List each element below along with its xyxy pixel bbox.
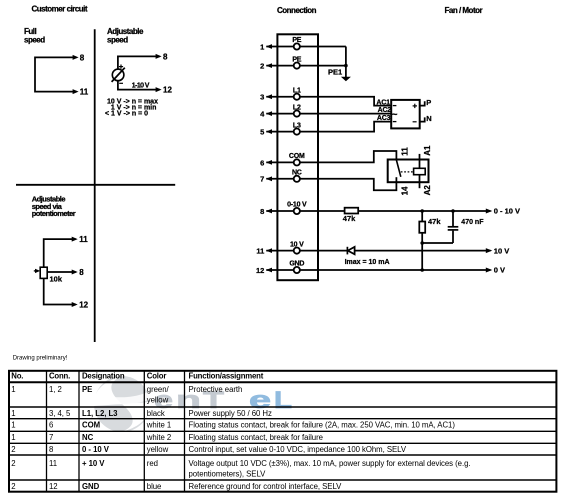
divider horizontal line — [16, 184, 175, 186]
svg-text:0 - 10 V: 0 - 10 V — [82, 445, 110, 454]
svg-text:white 1: white 1 — [146, 421, 171, 430]
svg-text:No.: No. — [11, 371, 23, 380]
svg-text:PE: PE — [292, 56, 301, 63]
svg-text:8: 8 — [80, 53, 85, 62]
wire terminal 1 PE — [266, 46, 346, 48]
svg-text:8: 8 — [260, 207, 264, 216]
table row L1 L2 L3 — [11, 409, 272, 418]
resistor 47k vertical — [419, 222, 425, 233]
arrow to 8 — [156, 54, 162, 59]
node junction 0-10V / 47k — [420, 209, 424, 213]
svg-text:2: 2 — [11, 445, 15, 454]
svg-text:AC3: AC3 — [377, 115, 391, 122]
wire divider vertical — [421, 211, 423, 270]
svg-text:yellow: yellow — [147, 445, 169, 454]
svg-text:Imax = 10 mA: Imax = 10 mA — [345, 259, 390, 266]
minus sign — [119, 82, 123, 84]
wire full-speed jumper 8-11 — [35, 57, 77, 91]
relay K1 contact box — [388, 160, 429, 183]
svg-text:P: P — [426, 98, 431, 107]
rectifier plus mark — [413, 104, 417, 108]
table row +10V — [11, 459, 470, 479]
svg-text:L1, L2, L3: L1, L2, L3 — [82, 409, 118, 418]
terminal 5 L3 — [260, 122, 301, 136]
svg-text:Power supply 50 / 60 Hz: Power supply 50 / 60 Hz — [189, 409, 273, 418]
svg-text:blue: blue — [147, 482, 162, 491]
label: Adjustable speed — [107, 27, 144, 44]
svg-text:12: 12 — [163, 86, 172, 95]
svg-text:6: 6 — [260, 158, 264, 167]
svg-text:2: 2 — [260, 62, 264, 71]
svg-text:1-10 V: 1-10 V — [132, 83, 150, 90]
svg-text:11: 11 — [400, 147, 409, 156]
svg-text:Reference ground for control i: Reference ground for control interface, … — [189, 482, 343, 491]
svg-text:NC: NC — [292, 170, 302, 177]
terminal 1 PE — [260, 37, 302, 51]
capacitor 470nF stub top — [452, 211, 454, 226]
terminal 6 COM — [260, 153, 305, 167]
arrow to 11 — [73, 89, 79, 94]
svg-text:NC: NC — [82, 433, 94, 442]
wire terminal 5 L3 — [266, 122, 391, 132]
svg-text:+ 10 V: + 10 V — [82, 459, 105, 468]
svg-text:Color: Color — [147, 371, 167, 380]
table row COM — [11, 421, 455, 430]
wire PE1 drop — [345, 47, 347, 78]
rectifier input marks — [393, 105, 397, 107]
wire P stub — [420, 101, 425, 105]
svg-text:N: N — [426, 114, 431, 123]
svg-text:Customer circuit: Customer circuit — [32, 5, 88, 14]
wire terminal 3 L1 — [266, 97, 391, 106]
svg-text:potentiometer: potentiometer — [32, 209, 76, 218]
svg-text:2: 2 — [11, 482, 15, 491]
svg-text:Floating status contact, break: Floating status contact, break for failu… — [189, 433, 323, 442]
node PE junction — [344, 64, 348, 68]
svg-text:12: 12 — [79, 300, 88, 309]
svg-text:white 2: white 2 — [146, 433, 171, 442]
source diagonal line — [112, 68, 125, 82]
wire pot to 11 — [44, 239, 76, 267]
svg-text:0 V: 0 V — [494, 266, 505, 275]
arrow to 8 — [72, 270, 78, 275]
svg-text:1: 1 — [11, 421, 15, 430]
svg-text:11: 11 — [49, 459, 57, 468]
wire source to 12 — [118, 81, 160, 90]
svg-text:green/: green/ — [147, 385, 170, 394]
node junction divider mid — [420, 241, 424, 245]
terminal 2 PE — [260, 56, 302, 70]
svg-text:1: 1 — [260, 42, 264, 51]
svg-text:47k: 47k — [428, 217, 441, 226]
table row NC — [11, 433, 323, 442]
terminal 12 GND — [256, 261, 304, 275]
svg-text:Fan / Motor: Fan / Motor — [445, 6, 483, 15]
label: Adjustable speed via potentiometer — [32, 195, 76, 219]
svg-text:GND: GND — [82, 482, 100, 491]
terminal 7 NC — [260, 170, 302, 184]
arrow out 0V — [486, 268, 493, 273]
label: Full speed — [24, 27, 45, 44]
svg-text:PE1: PE1 — [328, 67, 342, 76]
capacitor plates — [448, 226, 459, 228]
svg-text:47k: 47k — [343, 214, 356, 223]
svg-text:A2: A2 — [423, 185, 432, 196]
svg-text:0-10 V: 0-10 V — [287, 202, 307, 209]
svg-text:Connection: Connection — [277, 6, 317, 15]
capacitor stub bottom — [452, 231, 454, 243]
wire pot to 12 — [44, 278, 76, 304]
arrow to 8 — [73, 55, 79, 60]
svg-text:yellow: yellow — [147, 396, 169, 405]
terminal 4 L2 — [260, 104, 301, 118]
svg-text:8: 8 — [163, 52, 168, 61]
potentiometer R body 10k — [40, 267, 47, 278]
svg-text:6: 6 — [49, 421, 53, 430]
terminal block — [277, 34, 318, 280]
svg-text:~: ~ — [392, 110, 398, 121]
svg-text:Protective earth: Protective earth — [189, 385, 243, 394]
svg-text:10k: 10k — [50, 275, 63, 284]
plus sign — [119, 65, 123, 69]
wire terminal 2 PE — [266, 65, 346, 67]
rectifier module — [391, 100, 420, 128]
wire terminal 4 L2 — [266, 113, 391, 115]
svg-text:0 - 10 V: 0 - 10 V — [494, 207, 520, 216]
svg-text:L2: L2 — [293, 104, 301, 111]
ground PE1 symbol — [341, 77, 351, 82]
svg-text:AC2: AC2 — [378, 107, 392, 114]
svg-text:L1: L1 — [293, 87, 301, 94]
watermark swirl logo — [93, 375, 151, 433]
wire terminal 7 NC to relay pin 14 — [266, 177, 396, 190]
svg-text:Control input, set value 0-10: Control input, set value 0-10 VDC, imped… — [189, 445, 407, 454]
watermark letters el (blue) — [249, 387, 292, 414]
watermark letters enT (gray) — [154, 387, 224, 414]
svg-text:1: 1 — [11, 385, 15, 394]
rectifier minus mark — [413, 121, 417, 123]
svg-text:L: L — [274, 387, 292, 414]
svg-text:8: 8 — [79, 268, 84, 277]
svg-text:1: 1 — [11, 433, 15, 442]
table row PE — [11, 385, 242, 404]
svg-text:A1: A1 — [423, 145, 432, 156]
svg-text:COM: COM — [82, 421, 100, 430]
svg-text:12: 12 — [49, 482, 58, 491]
arrow out 10V — [486, 248, 493, 253]
svg-text:7: 7 — [49, 433, 53, 442]
wiper arrow — [34, 270, 36, 272]
wire terminal 6 COM to relay pin 11 — [266, 151, 396, 162]
svg-text:L3: L3 — [293, 122, 301, 129]
svg-text:GND: GND — [289, 261, 304, 268]
table row GND — [11, 482, 342, 491]
wire N stub — [420, 117, 425, 121]
TABLE — [9, 371, 556, 492]
svg-text:2: 2 — [11, 459, 15, 468]
arrow out 0-10V — [486, 209, 493, 214]
svg-text:14: 14 — [400, 186, 409, 195]
svg-text:1: 1 — [11, 409, 15, 418]
svg-text:470 nF: 470 nF — [461, 219, 484, 226]
table row 0-10V — [11, 445, 407, 454]
terminal 8 0-10V — [260, 202, 307, 216]
svg-text:Voltage output 10 VDC (±3%), m: Voltage output 10 VDC (±3%), max. 10 mA,… — [189, 459, 471, 468]
svg-text:Conn.: Conn. — [49, 371, 70, 380]
relay actuator dashed link — [401, 171, 414, 173]
svg-text:potentiometers), SELV: potentiometers), SELV — [189, 469, 267, 478]
svg-text:8: 8 — [49, 445, 53, 454]
diode D1 — [346, 247, 348, 255]
relay lever contact — [396, 160, 400, 177]
divider vertical line — [94, 29, 96, 342]
note: voltage mapping — [105, 99, 158, 118]
svg-text:Function/assignment: Function/assignment — [189, 371, 264, 380]
svg-text:10 V: 10 V — [494, 246, 509, 255]
table grid lines — [9, 371, 556, 492]
svg-text:speed: speed — [24, 36, 45, 45]
wire terminal 12 GND — [266, 269, 490, 271]
wire cap bottom to divider — [422, 242, 453, 244]
svg-text:3, 4, 5: 3, 4, 5 — [49, 409, 71, 418]
svg-text:12: 12 — [256, 266, 264, 275]
svg-text:7: 7 — [260, 175, 264, 184]
node junction 0-10V / cap — [451, 209, 455, 213]
svg-text:red: red — [147, 459, 158, 468]
svg-text:Designation: Designation — [82, 371, 125, 380]
svg-text:10 V: 10 V — [290, 241, 304, 248]
svg-text:PE: PE — [292, 37, 301, 44]
resistor 47k horizontal — [345, 208, 359, 214]
table header row — [11, 371, 263, 380]
svg-text:COM: COM — [289, 153, 305, 160]
wire A1 — [419, 154, 421, 168]
svg-text:11: 11 — [79, 235, 88, 244]
relay pin 14 stub inside — [395, 177, 397, 182]
svg-text:< 1 V -> n = 0: < 1 V -> n = 0 — [105, 111, 148, 118]
wire terminal 11 10V — [266, 250, 490, 252]
arrow to 11 — [72, 237, 78, 242]
terminal 11 10V — [256, 241, 304, 255]
voltage source circle — [112, 69, 124, 81]
arrow to 12 — [156, 87, 162, 92]
svg-text:5: 5 — [260, 128, 264, 137]
svg-text:11: 11 — [256, 247, 264, 256]
wire source to 8 — [118, 56, 160, 69]
svg-text:Floating status contact, break: Floating status contact, break for failu… — [189, 421, 456, 430]
svg-text:speed: speed — [107, 36, 128, 45]
svg-text:PE: PE — [82, 385, 92, 394]
node junction divider gnd — [420, 268, 424, 272]
arrow to 12 — [72, 302, 78, 307]
svg-text:3: 3 — [260, 93, 264, 102]
svg-text:1, 2: 1, 2 — [49, 385, 62, 394]
svg-text:black: black — [147, 409, 165, 418]
svg-text:11: 11 — [80, 88, 89, 97]
wire wiper to 8 — [47, 271, 75, 273]
wire terminal 8 control 0-10V — [266, 210, 490, 212]
svg-text:AC1: AC1 — [376, 99, 390, 106]
svg-text:Drawing preliminary!: Drawing preliminary! — [13, 356, 68, 362]
terminal 3 L1 — [260, 87, 301, 101]
wire A2 — [419, 175, 421, 189]
relay coil — [414, 168, 426, 174]
